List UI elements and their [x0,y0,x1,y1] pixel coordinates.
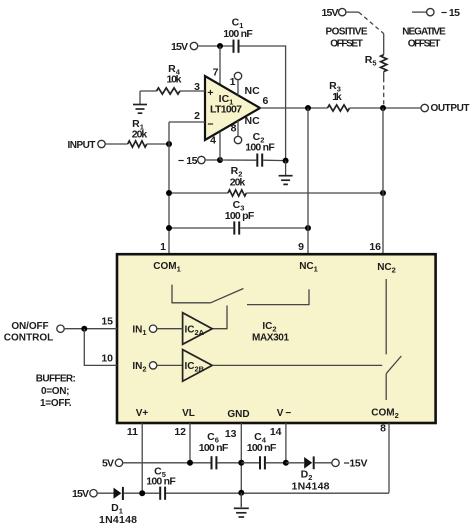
svg-text:MAX301: MAX301 [252,332,289,343]
svg-text:14: 14 [270,426,282,438]
label buffer note [36,374,76,409]
input terminal INPUT [68,140,106,151]
pin 8 stub [380,423,389,493]
junction V- node [283,460,289,466]
svg-text:1: 1 [160,241,166,253]
supply terminal 15V (top left) [171,41,198,53]
negative offset terminal [412,7,460,19]
svg-text:NC: NC [245,85,261,97]
svg-text:100 nF: 100 nF [146,476,176,488]
wire op-amp output [260,95,328,108]
capacitor C4 [241,431,286,469]
svg-text:INPUT: INPUT [68,140,96,151]
pin 11 stub [127,423,142,493]
pin 3 wire [180,81,205,93]
junction output node B [380,105,386,111]
capacitor C2 [220,131,286,167]
switch S1 pole [172,285,211,303]
resistor R1 [105,118,169,147]
capacitor C3 [169,199,308,235]
ground at C2 [279,161,293,185]
svg-text:100 nF: 100 nF [247,442,277,454]
svg-text:1N4148: 1N4148 [99,514,137,526]
buffer IC2A [183,313,213,345]
label positive offset [326,27,368,50]
svg-text:15: 15 [101,316,113,328]
resistor R4 [140,63,182,94]
svg-text:4: 4 [210,135,216,147]
junction C3 right [305,225,311,231]
svg-text:7: 7 [213,67,219,79]
svg-text:1N4148: 1N4148 [292,481,330,493]
svg-text:1: 1 [230,76,236,88]
switch S1 lever [211,289,244,303]
svg-text:VL: VL [182,408,195,419]
svg-text:+: + [207,87,213,99]
svg-text:V+: V+ [136,408,149,419]
svg-text:20k: 20k [230,177,246,189]
junction output node A [305,105,311,111]
ground at R4 [133,91,147,113]
svg-text:8: 8 [231,123,237,135]
svg-text:OFFSET: OFFSET [330,39,363,50]
svg-text:ON/OFF: ON/OFF [11,321,48,332]
junction GND node top [238,460,244,466]
ground bottom [234,493,249,517]
supply terminal 5V [102,458,211,470]
svg-text:GND: GND [227,409,249,420]
svg-text:20k: 20k [132,129,148,141]
resistor R2 [169,165,383,196]
junction VL node [187,460,193,466]
pin 12 stub [174,423,190,463]
supply terminal -15V [332,458,368,470]
svg-text:10: 10 [101,353,113,365]
wire IC2B output to switch S2 [212,364,382,366]
input IN2 [132,361,182,374]
wire pin 9 vertical [298,108,308,254]
svg-text:100 pF: 100 pF [225,210,255,222]
svg-text:1=OFF.: 1=OFF. [40,398,72,409]
wire pin 10 branch [84,329,117,366]
junction GND node bottom [238,490,244,496]
pin 8 NC terminal [231,115,260,144]
junction control node [81,326,87,332]
supply terminal -15 [178,155,220,167]
svg-text:− 15: − 15 [441,7,460,19]
wire input node vertical to pin 1 [168,122,170,254]
pin 2 wire [169,110,205,122]
label IC2 MAX301 [252,321,289,343]
wire bottom rail [142,492,389,494]
junction V+ node [139,490,145,496]
output terminal OUTPUT [421,103,470,114]
capacitor C5 [146,466,176,500]
svg-text:−15V: −15V [344,458,368,470]
wire pin 7 [213,46,220,85]
svg-text:5V: 5V [102,458,114,470]
junction ground node [283,158,289,164]
on/off control terminal [4,321,64,344]
svg-text:1k: 1k [332,91,342,103]
switch S2 lever [386,356,401,374]
wire pin 16 vertical [369,108,383,254]
pin 1 NC terminal [230,72,260,97]
svg-text:BUFFER:: BUFFER: [36,374,76,385]
capacitor C6 [199,431,242,469]
pin 14 stub [270,423,286,463]
pin 13 stub [225,423,241,507]
svg-text:16: 16 [369,241,381,253]
svg-text:15V: 15V [322,7,339,19]
wire C1 right side down to ground node [240,46,286,161]
wire pin 15 [64,316,117,329]
svg-text:15V: 15V [72,488,89,500]
junction input node [166,141,172,147]
switch S2 pole to COM2 [385,374,387,400]
pin 4 wire [210,132,220,161]
svg-text:V −: V − [277,408,292,419]
svg-text:R5: R5 [365,54,377,68]
svg-text:3: 3 [194,81,200,93]
wire 15V to pin7 node [198,45,233,47]
dashed wire R5 to output node [383,72,385,78]
svg-text:NC: NC [245,115,261,127]
svg-text:− 15: − 15 [178,155,198,167]
diode D1 [99,487,142,526]
op-amp labels IC1 LT1007 [210,93,242,116]
svg-text:OUTPUT: OUTPUT [431,103,470,114]
svg-text:15V: 15V [171,41,188,53]
svg-text:6: 6 [263,95,269,107]
resistor R3 [328,80,422,111]
svg-text:LT1007: LT1007 [210,104,242,116]
op-amp U1 triangle [205,76,260,140]
svg-text:13: 13 [225,428,237,440]
diode D2 [286,456,332,492]
label negative offset [402,27,446,50]
buffer IC2B [183,350,213,382]
svg-text:100 nF: 100 nF [245,142,275,154]
capacitor C1 [223,16,253,53]
svg-text:11: 11 [127,426,138,438]
supply terminal 15V (offset) [322,7,359,19]
svg-text:OFFSET: OFFSET [408,39,441,50]
dashed wire to R5 [359,12,384,33]
svg-text:10k: 10k [167,74,182,86]
junction R2 right [380,190,386,196]
IC2 box MAX301 [117,254,436,423]
svg-text:CONTROL: CONTROL [4,333,54,344]
junction pin4 node [217,157,223,163]
wire IC2A output to switch [212,306,227,329]
junction R2 left [166,190,172,196]
op-amp plus minus marks [207,87,213,131]
svg-text:−: − [207,119,213,131]
switch S1 contact to NC1 [247,289,309,304]
svg-text:100 nF: 100 nF [223,28,253,40]
resistor R5 [365,54,387,72]
svg-text:2: 2 [194,110,200,122]
svg-text:100 nF: 100 nF [199,442,229,454]
supply terminal 15V (bottom) [72,488,114,500]
switch S2 contact from NC2 [385,279,387,354]
input IN1 [132,325,182,338]
junction pin7 node [217,43,223,49]
svg-text:POSITIVE: POSITIVE [326,27,368,38]
svg-text:NEGATIVE: NEGATIVE [402,27,446,38]
junction C3 left [166,225,172,231]
svg-text:0=ON;: 0=ON; [41,386,70,397]
svg-text:12: 12 [174,426,186,438]
svg-text:9: 9 [298,241,304,253]
svg-text:8: 8 [380,423,386,435]
